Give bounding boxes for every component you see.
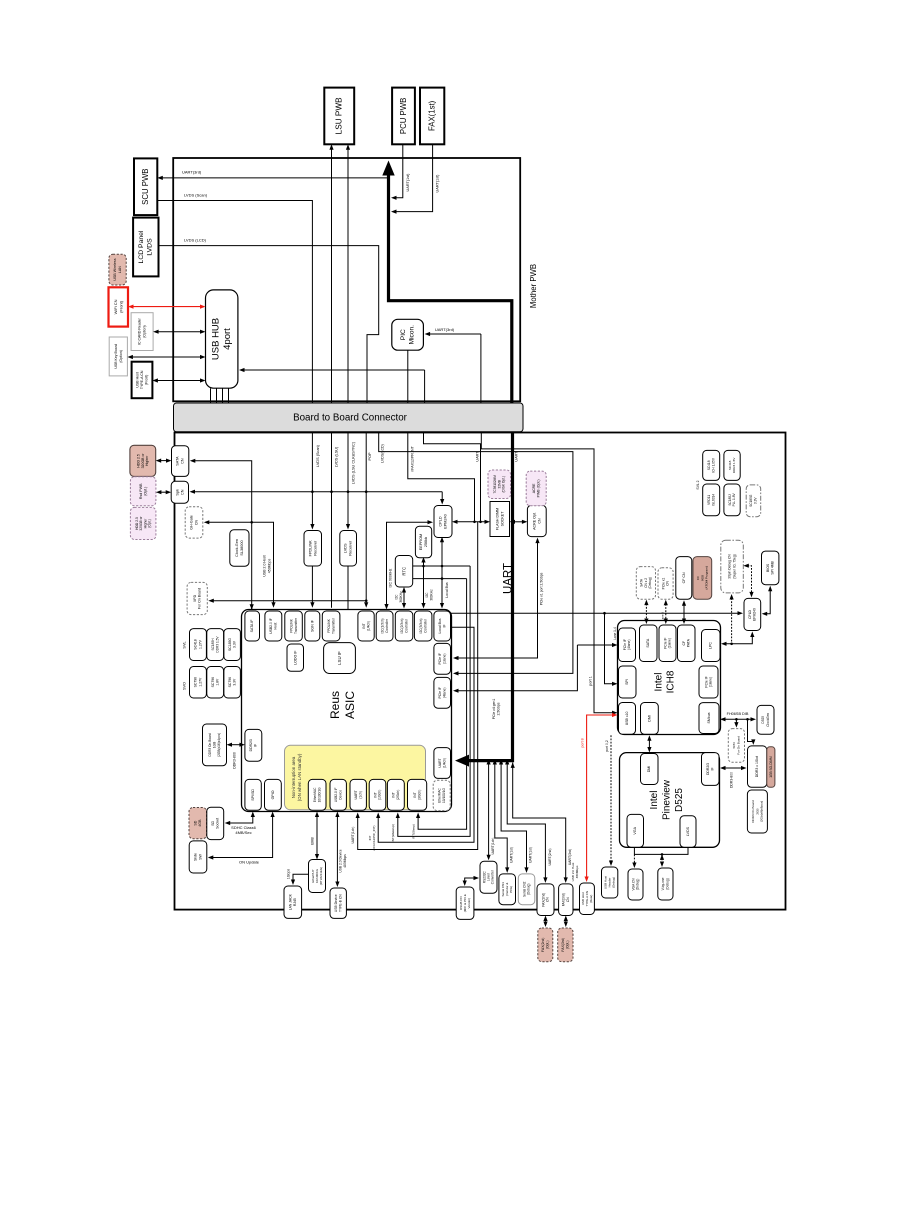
svg-text:SC185H: SC185H — [211, 638, 215, 651]
connector USB Wireless LAN (option) — [109, 254, 126, 285]
regulator SC185G 3.3V — [224, 629, 241, 661]
svg-text:CN: CN — [180, 489, 184, 495]
svg-text:SC185G: SC185G — [749, 494, 753, 507]
wire LVDS Receiver to LSU IF — [347, 566, 349, 638]
svg-text:POP: POP — [368, 452, 372, 460]
svg-text:UART: UART — [475, 451, 479, 462]
box FAX(1st) — [420, 88, 444, 145]
svg-text:PCIe x1 port 2.5Gbps: PCIe x1 port 2.5Gbps — [540, 572, 544, 605]
wire RTC local bus lower — [413, 578, 467, 580]
svg-text:SVL: SVL — [183, 641, 187, 648]
svg-text:INT(Sleep): INT(Sleep) — [412, 824, 416, 839]
svg-text:TYPE-A CN: TYPE-A CN — [140, 370, 144, 389]
svg-text:UART(1st): UART(1st) — [406, 173, 410, 192]
svg-text:(3/3ch): (3/3ch) — [417, 790, 421, 801]
svg-text:320GB or: 320GB or — [141, 453, 145, 469]
svg-text:BIOS: BIOS — [766, 563, 770, 572]
svg-text:PCIe IF: PCIe IF — [623, 639, 627, 650]
svg-text:SPI: SPI — [625, 679, 629, 685]
wire DDR3-800 Pineview to slot — [724, 767, 742, 769]
svg-text:PCIe IF: PCIe IF — [438, 653, 442, 665]
svg-text:Host: Host — [274, 622, 278, 629]
svg-text:port 0,2: port 0,2 — [605, 740, 609, 752]
red wire port 8 USB Host Rear — [587, 715, 614, 878]
svg-text:10/100/1G: 10/100/1G — [317, 787, 321, 802]
ich8 block LPC — [702, 630, 721, 662]
svg-text:I2C(1/3ch): I2C(1/3ch) — [380, 619, 384, 634]
svg-text:Converter: Converter — [491, 869, 495, 884]
svg-text:For On Board: For On Board — [198, 588, 202, 609]
svg-text:SL38000: SL38000 — [240, 540, 244, 555]
svg-text:360KHz: 360KHz — [429, 589, 433, 601]
svg-text:UART: UART — [515, 451, 519, 462]
svg-text:Local Bus: Local Bus — [438, 618, 442, 633]
connector SATA CN — [172, 446, 189, 477]
svg-text:UART(1st): UART(1st) — [435, 174, 439, 193]
svg-text:Device: Device — [338, 790, 342, 800]
svg-text:(Opt.): (Opt.) — [148, 519, 152, 527]
svg-text:4MB/Sec: 4MB/Sec — [235, 830, 251, 835]
asic block SGN IF — [305, 611, 320, 641]
wire UART(1ch) ASIC riser — [358, 522, 478, 850]
wire CPLD to FLASH DIMM — [456, 521, 486, 523]
svg-text:I2C(2/3ch): I2C(2/3ch) — [400, 619, 404, 634]
svg-text:PCIe x4 gen1: PCIe x4 gen1 — [492, 699, 496, 720]
svg-text:PCIe IF: PCIe IF — [663, 638, 667, 649]
option HDD 2.5 320GB (Opt.) — [130, 507, 156, 539]
asic block FPOLINK Receiver — [322, 611, 340, 641]
svg-text:1.27V: 1.27V — [198, 639, 202, 649]
connector DSUB CN (MIC & PCI & Vendor) — [456, 887, 474, 919]
svg-text:VGA: VGA — [633, 826, 637, 834]
svg-text:FH06SB DIB: FH06SB DIB — [727, 712, 749, 716]
wire BIOS to CPLD south — [766, 590, 770, 614]
ich8 block PCIe IF (4lane) — [619, 628, 636, 662]
asic block INT (1/4ch) — [358, 611, 374, 641]
svg-text:Lane 1-4: Lane 1-4 — [613, 627, 617, 640]
svg-text:INT: INT — [362, 623, 366, 628]
wire XPD to POP line — [212, 600, 366, 602]
ich8 block PCIe IF (1lane) upper — [659, 625, 676, 662]
svg-text:CN: CN — [566, 897, 570, 902]
svg-text:SD: SD — [193, 820, 197, 825]
box PCU PWB — [392, 88, 415, 145]
svg-text:1.27V: 1.27V — [198, 677, 202, 687]
svg-text:USB2.0 IF: USB2.0 IF — [334, 788, 338, 803]
svg-text:(Opt.): (Opt.) — [546, 940, 550, 949]
box IC CARD Reader (Option) — [131, 313, 153, 351]
svg-text:ICH 1.05V: ICH 1.05V — [711, 457, 715, 473]
svg-text:LVDS(LCD): LVDS(LCD) — [381, 444, 385, 463]
wire LPC to CPLD south — [725, 636, 752, 644]
svg-text:SC418: SC418 — [707, 460, 711, 470]
svg-text:LVDS (LSU): LVDS (LSU) — [335, 446, 339, 467]
svg-text:ACRE Opt.: ACRE Opt. — [532, 512, 536, 530]
svg-text:RJ45: RJ45 — [293, 898, 297, 906]
wire USB HUB upstream — [243, 369, 425, 371]
svg-text:FPDLINK: FPDLINK — [308, 540, 312, 557]
svg-text:EEPROM: EEPROM — [419, 534, 423, 550]
wire SPI/SD to SD Socket — [229, 816, 253, 823]
svg-text:GPIO: GPIO — [271, 790, 275, 799]
svg-text:FAX(1st): FAX(1st) — [428, 100, 437, 131]
svg-text:For On Board: For On Board — [737, 736, 741, 755]
pineview block VGA — [627, 814, 644, 847]
svg-text:DMI: DMI — [647, 715, 651, 722]
svg-text:(nFAX12/PIC_INT): (nFAX12/PIC_INT) — [372, 825, 376, 850]
wire POP line to ASIC INT — [365, 432, 367, 604]
svg-text:Controller: Controller — [404, 618, 408, 633]
connector USB Host TYPE-A CN (Rear) — [580, 883, 595, 915]
svg-text:INT: INT — [373, 792, 377, 797]
svg-text:USB Key Board: USB Key Board — [114, 344, 118, 369]
svg-text:CF: CF — [682, 641, 686, 646]
svg-text:3.3V: 3.3V — [233, 640, 237, 648]
svg-text:(1lane): (1lane) — [709, 677, 713, 687]
svg-text:360KHz: 360KHz — [399, 591, 403, 603]
svg-text:LVDS (LSU CLK&SYNC): LVDS (LSU CLK&SYNC) — [352, 441, 356, 484]
wire UART(2nd) bus to FAX(2nd) CN — [507, 763, 545, 879]
wire port 0,2 USB header dashed — [610, 735, 612, 862]
svg-text:DDR3-800: DDR3-800 — [233, 752, 237, 769]
phy EtherPHY RTL8211EG — [309, 860, 326, 893]
regulator SC418 1.27V — [190, 629, 207, 661]
asic block INT (3/3ch) — [408, 779, 427, 810]
svg-text:SMbus: SMbus — [707, 712, 711, 723]
asic block USB2.0 IF Device — [330, 779, 346, 810]
svg-text:CN: CN — [194, 520, 198, 526]
svg-text:CPLD: CPLD — [748, 609, 752, 618]
ic RTC — [395, 556, 412, 588]
svg-text:CN: CN — [666, 581, 670, 586]
wire PCIe x4 ASIC to ICH8 — [577, 644, 613, 646]
connector bar Board to Board Connector — [174, 403, 524, 432]
wire CPLD to Local Bus IF — [441, 541, 443, 605]
svg-text:XPD: XPD — [193, 594, 197, 602]
connector Serial CN3 (Vendor & PCE) — [499, 874, 516, 905]
svg-text:(4lane): (4lane) — [442, 688, 446, 699]
svg-text:PCIe IF: PCIe IF — [704, 676, 708, 687]
wire FAX(2nd) CN to option — [545, 920, 547, 923]
svg-text:FAX(3rd): FAX(3rd) — [562, 893, 566, 906]
wire 30pin to CPLD south dashed — [747, 566, 751, 594]
wire SMbus to DDR3 slot — [748, 719, 754, 741]
svg-text:Controller: Controller — [423, 618, 427, 633]
asic block UART (1/4ch) — [434, 748, 451, 779]
wire SMbus FH06SB DIB bus — [724, 718, 752, 720]
svg-text:VRD11: VRD11 — [707, 495, 711, 505]
wire LVDS (LCD) lower segment to ASIC — [379, 432, 573, 674]
svg-text:CN: CN — [181, 458, 185, 464]
ic BIOS SPI 4MB — [762, 551, 779, 585]
wire EMB EtherMAC to EtherPHY — [316, 816, 318, 856]
wire UART(3rd) SCU PWB to UART bus — [161, 177, 388, 179]
connector USB Host Header (Debug) — [602, 867, 618, 898]
red wire WiFi CN to USB HUB — [132, 306, 201, 308]
svg-text:LVDS (LCD): LVDS (LCD) — [184, 238, 207, 243]
svg-text:SD: SD — [211, 821, 215, 826]
svg-text:SC418: SC418 — [194, 639, 198, 649]
svg-text:(Option): (Option) — [143, 325, 147, 338]
svg-text:(Debug): (Debug) — [666, 878, 670, 890]
svg-text:(ON when LAN standby): (ON when LAN standby) — [297, 753, 302, 801]
svg-text:Reus: Reus — [328, 691, 342, 719]
connector CF CN — [676, 557, 692, 600]
svg-text:LSU PWB: LSU PWB — [335, 97, 344, 134]
regulator VRD11 ISL6314 — [703, 484, 720, 516]
connector PCIe x1 CN (Debug) — [658, 568, 673, 599]
svg-text:CN: CN — [537, 518, 541, 524]
box USB Key Board (Option) — [109, 337, 127, 376]
svg-text:CPLD: CPLD — [439, 516, 443, 526]
svg-text:Intel: Intel — [649, 791, 660, 810]
ich8 block SMbus — [699, 703, 719, 734]
wire INT(Sleep) riser — [418, 579, 467, 830]
svg-text:DMI: DMI — [647, 766, 651, 773]
asic block I2C(1/3ch) Controller — [376, 611, 393, 641]
connector VGA CN (Debug) — [628, 869, 643, 900]
svg-text:CN: CN — [546, 897, 550, 902]
memory DDR3 On Board 2GB — [747, 790, 767, 833]
svg-text:PCE): PCE) — [509, 886, 513, 893]
wire UART(1st) FAX(1st) — [395, 144, 433, 211]
wire Local Bus to CPLD south — [451, 612, 739, 614]
svg-text:LVDS: LVDS — [344, 543, 348, 553]
wire PCIe x1 CN Lane5 dashed — [665, 604, 667, 620]
svg-text:PATA: PATA — [686, 638, 690, 647]
svg-text:Micon.: Micon. — [408, 325, 415, 345]
wire UART(1st) bus to Serial CN3 — [495, 763, 507, 869]
svg-text:IF: IF — [710, 767, 714, 770]
svg-text:(Opt.): (Opt.) — [566, 940, 570, 949]
svg-text:EtherMAC: EtherMAC — [438, 787, 442, 802]
svg-text:LPC: LPC — [709, 642, 713, 649]
svg-text:INT: INT — [413, 792, 417, 797]
svg-text:(Opt.): (Opt.) — [144, 487, 148, 496]
svg-text:USB Device: USB Device — [334, 894, 338, 912]
memory DDR3 On Board 1GB — [203, 724, 227, 766]
wire IC CARD Reader to USB HUB — [157, 331, 201, 333]
svg-text:I2C(3/3ch): I2C(3/3ch) — [419, 619, 423, 634]
asic block DDR2/3 IF — [245, 729, 262, 761]
svg-text:LVDS (Scan): LVDS (Scan) — [184, 193, 208, 198]
svg-text:Transmitter: Transmitter — [294, 617, 298, 634]
socket DDR3 x 1Slot — [748, 746, 767, 787]
svg-text:Transmitter: Transmitter — [331, 617, 335, 634]
svg-text:Lane 5: Lane 5 — [660, 612, 664, 622]
svg-text:(1ch): (1ch) — [358, 791, 362, 799]
svg-text:Receiver: Receiver — [313, 540, 317, 556]
svg-text:USB x10: USB x10 — [625, 711, 629, 725]
svg-text:WiFi CN: WiFi CN — [113, 299, 118, 314]
option FAX(3rd) (Opt.) — [558, 928, 573, 962]
svg-text:Board to Board Connector: Board to Board Connector — [293, 412, 408, 423]
connector USB Device TYPE-B CN — [330, 888, 346, 918]
asic block EtherMAC 10/100/1G standby — [433, 780, 450, 810]
svg-text:UART: UART — [354, 790, 358, 799]
asic Reus ASIC — [242, 610, 452, 812]
wire Spk CN to CPLD — [194, 491, 443, 493]
svg-text:UART(1st): UART(1st) — [510, 847, 514, 863]
svg-text:UART(1ch): UART(1ch) — [351, 827, 355, 844]
wire INT(WakeUp) riser — [398, 566, 470, 836]
svg-text:IF: IF — [442, 624, 446, 627]
svg-text:Pineview: Pineview — [662, 779, 673, 820]
wire HDD to SATA CN — [160, 460, 168, 462]
svg-text:(1lane): (1lane) — [442, 654, 446, 665]
ich8 block DMI — [641, 703, 659, 735]
chipset Intel ICH8 — [618, 621, 721, 735]
svg-text:(Debug): (Debug) — [636, 879, 640, 891]
asic block LSU IF — [324, 643, 356, 674]
regulator SC185G 3.3V option — [746, 485, 761, 517]
regulator SC796 3.3V — [224, 667, 241, 699]
svg-text:GH-Gate: GH-Gate — [190, 515, 194, 529]
dimm 1GB SO-DIMM — [767, 747, 775, 788]
ic LVDS Receiver — [340, 531, 357, 567]
pineview block DMI — [641, 754, 659, 785]
wire UART(1ch) bus to RS232C — [488, 763, 490, 856]
connector USB Host TYPE-A CN (Front) — [132, 362, 153, 399]
svg-text:DDR2/3: DDR2/3 — [249, 739, 253, 751]
drive HDD 2.5 320GB — [130, 445, 156, 476]
svg-text:(Front): (Front) — [118, 300, 123, 313]
asic block I2C(3/3ch) Controller — [414, 611, 432, 641]
wire 30pin to LPC line dashed — [731, 598, 733, 644]
svg-text:LVDS (Scan): LVDS (Scan) — [316, 444, 320, 467]
wire Pineview LVDS to debug headers — [634, 847, 688, 854]
svg-text:SPI 4MB: SPI 4MB — [771, 560, 775, 574]
ic RS232C Level Converter — [480, 861, 497, 893]
wire SPI branch — [605, 613, 614, 684]
connector 30pin Debug CN — [721, 540, 744, 593]
svg-text:UART: UART — [503, 563, 515, 594]
card SD 4GB — [189, 808, 207, 839]
svg-text:Spk: Spk — [175, 489, 179, 496]
wire USB Host TYPE-A Front to USB HUB — [157, 380, 202, 382]
svg-text:EtherMAC: EtherMAC — [313, 787, 317, 802]
svg-text:SPI/SD: SPI/SD — [251, 789, 255, 801]
regulator SC185J PLL 1.8V — [724, 484, 740, 516]
svg-text:Socket: Socket — [216, 818, 220, 829]
asic block LODO IF — [287, 644, 304, 671]
ic D525 ClockGen — [757, 705, 774, 734]
svg-text:SW: SW — [198, 854, 202, 860]
board outline Mother PWB — [173, 158, 520, 401]
svg-text:SCU PWB: SCU PWB — [141, 169, 150, 205]
svg-text:Slide: Slide — [194, 853, 198, 861]
connector Serial CN2 (Debug) — [518, 874, 535, 905]
svg-text:USB 2.0 Host: USB 2.0 Host — [263, 555, 267, 576]
wire UART(3rd) bus to FAX(3rd) CN — [513, 763, 566, 879]
svg-text:LAN: LAN — [118, 266, 122, 273]
svg-text:USB HUB: USB HUB — [210, 318, 221, 360]
svg-text:DDR3 x 1Slot: DDR3 x 1Slot — [755, 756, 759, 777]
wire GPIO ON Update to Slide SW — [212, 816, 273, 858]
svg-text:Local Bus: Local Bus — [445, 582, 449, 598]
svg-text:Non-interruption area: Non-interruption area — [291, 756, 296, 798]
svg-text:SC796: SC796 — [194, 677, 198, 687]
svg-text:450Mbps: 450Mbps — [267, 559, 271, 574]
svg-text:(Super IO, 75eg): (Super IO, 75eg) — [733, 554, 737, 579]
cpu Intel Pineview D525 — [620, 753, 720, 848]
svg-text:SPD: SPD — [732, 741, 736, 748]
svg-text:ACRE: ACRE — [532, 483, 536, 493]
wire FPDLINK Receiver to SGN IF — [311, 566, 313, 604]
ich8 block CF PATA — [678, 625, 696, 662]
svg-text:ClockGen: ClockGen — [766, 713, 770, 727]
zone Non-interruption area — [285, 745, 426, 810]
svg-text:PLL 1.8V: PLL 1.8V — [732, 493, 736, 507]
svg-text:1GB: 1GB — [213, 742, 217, 748]
svg-text:LVDS: LVDS — [686, 826, 690, 836]
svg-text:(4lane): (4lane) — [627, 640, 631, 650]
wire VGA CN dashed — [633, 854, 635, 864]
svg-text:(Front): (Front) — [145, 375, 149, 386]
option Rsd PWB — [130, 477, 156, 506]
regulator SC796 1.27V — [190, 667, 207, 699]
connector V-by-one (Debug) — [658, 868, 673, 900]
ich8 block SPI — [619, 666, 637, 698]
svg-text:UART(1ch): UART(1ch) — [491, 838, 495, 855]
svg-text:(Option): (Option) — [119, 350, 123, 363]
connector LAN JACK RJ45 — [284, 886, 302, 918]
wire SATA CN to ASIC SATA IF — [194, 461, 252, 610]
svg-text:(1/4ch): (1/4ch) — [442, 758, 446, 769]
wire DMI link — [648, 739, 650, 748]
svg-text:INT: INT — [392, 792, 396, 797]
svg-text:IC CARD Reader: IC CARD Reader — [138, 317, 142, 345]
asic block I2C(2/3ch) Controller — [395, 611, 413, 641]
ic Clock-Gen SL38000 — [230, 530, 249, 566]
svg-text:LSU IF: LSU IF — [337, 651, 342, 665]
svg-text:(Debug): (Debug) — [612, 877, 616, 888]
wire CF PATA to CF CN — [683, 604, 685, 620]
hub USB HUB 4port — [206, 290, 238, 388]
svg-text:ISL6314: ISL6314 — [711, 494, 715, 506]
svg-text:(2GB(x16)x4pcs): (2GB(x16)x4pcs) — [217, 733, 221, 757]
svg-text:nFAX12/PR.INT: nFAX12/PR.INT — [411, 445, 415, 471]
svg-text:FAX(2nd): FAX(2nd) — [541, 938, 545, 952]
svg-text:LAN JACK: LAN JACK — [289, 893, 293, 910]
svg-text:(1/4ch): (1/4ch) — [366, 621, 370, 632]
socket FLASH DIMM SOCKET — [490, 502, 510, 537]
wire LVDS (Scan) SCU PWB to FPDLINK Receiver — [157, 201, 312, 526]
svg-text:D525: D525 — [674, 788, 685, 812]
svg-text:(RTL8211EG): (RTL8211EG) — [319, 867, 323, 885]
svg-text:FAX(3rd): FAX(3rd) — [561, 938, 565, 952]
asic block FPOLINK Transmitter — [285, 611, 303, 641]
wire I2C(2ch) RTC — [403, 591, 405, 604]
svg-text:(Debug): (Debug) — [527, 884, 531, 896]
thick UART bus lower segment to ASIC UART — [466, 432, 513, 761]
svg-text:4GB: 4GB — [198, 819, 202, 827]
svg-text:(Rear): (Rear) — [589, 895, 593, 903]
svg-text:USB Wireless: USB Wireless — [113, 258, 117, 280]
wire EtherPHY to LAN JACK 1Gbps — [293, 874, 309, 881]
connector FAX(3rd) CN — [559, 884, 573, 916]
wire UART(3rd) PIC Micon — [429, 333, 481, 335]
svg-text:LCD Panel: LCD Panel — [138, 230, 145, 263]
wire USB Key Board to USB HUB — [132, 356, 202, 358]
option ACRE PWB — [526, 471, 546, 506]
svg-text:SVL 2: SVL 2 — [696, 480, 700, 489]
ic EEPROM 256kb — [415, 526, 431, 558]
spd SPD For On Board — [728, 729, 744, 763]
wire Rsd PWB to Spk CN — [160, 491, 167, 493]
asic block EtherMAC 10/100/1G — [308, 779, 326, 810]
regulator SC418 DDR3 1.5V — [724, 450, 740, 480]
